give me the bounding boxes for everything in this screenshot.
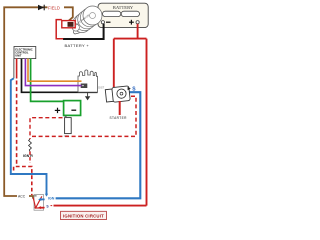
distributor [78, 70, 105, 92]
wire: tan field/ACC wire [4, 7, 73, 198]
svg-text:ACC: ACC [18, 195, 26, 199]
wire: black ECU to distributor ground [22, 59, 98, 93]
wire: battery positive red [54, 24, 147, 206]
svg-text:IGNITION CIRCUIT: IGNITION CIRCUIT [63, 213, 104, 218]
ignition switch [33, 195, 44, 211]
alternator [72, 6, 102, 34]
label FIELD [48, 4, 65, 10]
svg-text:DIST: DIST [98, 86, 104, 90]
svg-text:IGN R: IGN R [23, 154, 33, 158]
electronic control unit [14, 47, 36, 59]
wire: green coil control wire [31, 59, 64, 102]
svg-text:FIELD: FIELD [48, 6, 60, 11]
wire: red dashed switch feed [14, 167, 32, 196]
wire: blue run from starter S to switch [56, 92, 141, 198]
diode on field wire [38, 5, 44, 11]
svg-text:UNIT: UNIT [15, 54, 22, 58]
wire: orange pickup wire [28, 59, 82, 82]
wire: red dashed ballast to coil plus [30, 118, 63, 139]
svg-text:STARTER: STARTER [110, 116, 128, 120]
wire: gray ECU lead [13, 59, 15, 79]
ground [85, 92, 90, 100]
wire: red ECU lead solid [16, 59, 18, 79]
svg-text:IGN: IGN [48, 196, 55, 200]
svg-text:BATTERY: BATTERY [113, 5, 134, 10]
wire: red dashed bypass run [30, 96, 136, 136]
wire: blue ignition run wire [11, 78, 47, 195]
svg-text:BATTERY +: BATTERY + [65, 43, 90, 48]
battery B1 [98, 3, 148, 27]
wire: red dashed left run [16, 81, 18, 167]
starter [105, 86, 130, 103]
alternator field terminal (red box) [56, 20, 75, 39]
resistor IGN R [23, 139, 33, 163]
coil tower [64, 116, 71, 138]
wire: purple pickup wire [25, 59, 81, 86]
wire: battery negative black [63, 24, 104, 39]
ignition coil (green case) [55, 101, 81, 116]
title box IGNITION CIRCUIT [61, 211, 107, 219]
